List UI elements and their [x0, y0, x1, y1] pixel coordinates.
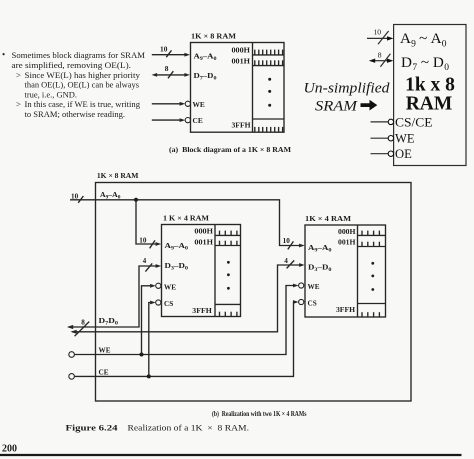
terminal CE (open circle): [69, 374, 75, 380]
svg-text:1 K × 4 RAM: 1 K × 4 RAM: [163, 213, 209, 222]
U3 cell ticks row 001H: [220, 241, 237, 246]
svg-text:>: >: [16, 70, 21, 80]
enclosure box 1K x 8 RAM realization: [96, 183, 412, 402]
svg-text:001H: 001H: [338, 238, 356, 246]
node junction CE rail: [147, 374, 151, 378]
svg-text:WE: WE: [193, 100, 205, 109]
wire data bus bidirectional with slash 8: [369, 51, 394, 67]
svg-text:true, i.e., GND.: true, i.e., GND.: [25, 89, 78, 99]
svg-text:WE: WE: [308, 283, 320, 291]
RAM block U2 un-simplified 1k x 8 overlay: [394, 25, 466, 166]
node junction on address bus: [134, 198, 138, 202]
svg-text:4: 4: [143, 257, 147, 265]
svg-text:10: 10: [71, 192, 79, 200]
svg-text:CE: CE: [99, 368, 109, 376]
svg-text:Un-simplified: Un-simplified: [304, 80, 390, 97]
svg-text:WE: WE: [164, 283, 176, 291]
svg-text:Figure 6.24: Figure 6.24: [66, 424, 118, 433]
svg-text:8: 8: [378, 51, 382, 60]
RAM block U3 (left 1K x 4): [162, 225, 241, 317]
svg-text:10: 10: [283, 237, 291, 245]
wire WE with bubble: [371, 136, 394, 141]
wire CE branch to U3: [149, 301, 156, 377]
wire data bus lower branch to U4: [71, 263, 305, 334]
bubble CE (active low): [185, 118, 190, 123]
svg-text:WE: WE: [99, 346, 111, 354]
wire CE rail: [74, 300, 298, 376]
svg-text:than OE(L), OE(L) can be alway: than OE(L), OE(L) can be always: [25, 80, 140, 90]
annotation bold arrow: [361, 100, 378, 111]
memory cell ticks row 001H: [255, 60, 283, 65]
bubble WE (active low): [185, 101, 190, 106]
bus slash: [168, 71, 173, 78]
wire address input with slash 10: [367, 28, 393, 45]
bus slash: [166, 50, 171, 57]
U4 bubble WE: [299, 283, 304, 288]
svg-text:001H: 001H: [194, 238, 213, 246]
svg-text:3FFH: 3FFH: [192, 307, 212, 315]
svg-text:(a) Block diagram of a 1K × 8: (a) Block diagram of a 1K × 8 RAM: [169, 145, 291, 154]
wire data bus upper branch to U3: [67, 264, 161, 329]
svg-text:001H: 001H: [232, 57, 251, 66]
U4 ellipsis dots: [371, 262, 374, 291]
wire WE input: [152, 102, 185, 106]
svg-text:000H: 000H: [338, 228, 356, 236]
U3 bubble WE: [156, 283, 161, 288]
svg-text:1k x 8: 1k x 8: [405, 75, 455, 96]
svg-text:In this case, if WE is true, w: In this case, if WE is true, writing: [25, 99, 141, 109]
terminal WE (open circle): [69, 352, 75, 358]
svg-text:CS: CS: [308, 300, 317, 308]
U3 ellipsis dots: [227, 261, 230, 290]
svg-text:3FFH: 3FFH: [232, 121, 251, 130]
wire CS/CE with bubble: [371, 119, 394, 124]
node junction WE rail: [140, 353, 144, 357]
svg-text:CE: CE: [193, 116, 203, 125]
wire CE input: [152, 118, 185, 122]
memory cell ticks row 3FFH: [255, 127, 283, 132]
wire WE rail: [74, 284, 298, 355]
U3 bubble CS: [156, 300, 161, 305]
svg-text:RAM: RAM: [406, 94, 453, 115]
svg-text:8: 8: [165, 64, 169, 73]
note bullet list about simplified SRAM diagrams: [2, 50, 145, 120]
bus slash (right 4): [287, 260, 295, 268]
svg-text:000H: 000H: [194, 228, 213, 236]
bus slash (8): [75, 322, 90, 337]
svg-text:D7 ~ D0: D7 ~ D0: [401, 54, 449, 73]
RAM block U4 (right 1K x 4): [305, 225, 386, 317]
svg-text:Sometimes block diagrams for S: Sometimes block diagrams for SRAM: [12, 50, 146, 60]
wire address branch to left RAM: [136, 200, 161, 246]
svg-text:are simplified, removing OE(L): are simplified, removing OE(L).: [12, 60, 132, 70]
bus slash (left branch): [150, 240, 155, 248]
svg-text:CS/CE: CS/CE: [395, 115, 433, 129]
bus slash (left 4): [145, 263, 152, 271]
bus slash (right branch): [288, 241, 294, 249]
bus slash: [78, 196, 83, 203]
svg-text:1K × 8 RAM: 1K × 8 RAM: [191, 31, 237, 40]
svg-text:4: 4: [284, 257, 288, 265]
svg-text:1K × 8 RAM: 1K × 8 RAM: [97, 171, 138, 180]
U4 bubble CS: [299, 299, 304, 304]
svg-text:to SRAM; otherwise reading.: to SRAM; otherwise reading.: [25, 109, 126, 119]
svg-text:>: >: [16, 99, 21, 109]
U3 cell ticks row 000H: [220, 231, 237, 236]
wire main address bus A9-A0: [70, 200, 305, 248]
memory cell ticks row 000H: [255, 50, 283, 55]
ellipsis dots: [268, 78, 271, 107]
svg-text:200: 200: [2, 444, 17, 455]
svg-text:A9 ~ A0: A9 ~ A0: [400, 30, 447, 49]
U3 cell ticks row 3FFH: [220, 312, 237, 317]
svg-text:Since WE(L) has higher priorit: Since WE(L) has higher priority: [25, 70, 141, 80]
wire data bus bidirectional: [152, 73, 191, 77]
RAM block U1 (1K x 8): [191, 43, 285, 133]
svg-text:10: 10: [160, 45, 168, 54]
svg-text:1K × 4 RAM: 1K × 4 RAM: [305, 214, 351, 223]
svg-text:000H: 000H: [232, 45, 251, 54]
svg-text:OE: OE: [395, 147, 412, 161]
page footer rule: [0, 454, 462, 456]
wire address bus into U1: [152, 53, 190, 57]
svg-text:CS: CS: [164, 300, 173, 308]
svg-text:10: 10: [374, 28, 382, 37]
U4 cell ticks row 000H: [362, 231, 379, 236]
svg-text:3FFH: 3FFH: [336, 306, 356, 314]
svg-text:WE: WE: [395, 131, 415, 145]
wire OE with bubble: [371, 151, 394, 156]
U4 cell ticks row 3FFH: [362, 312, 379, 317]
svg-text:(b) Realization with two 1K ×: (b) Realization with two 1K × 4 RAMs: [212, 410, 307, 418]
U4 cell ticks row 001H: [362, 242, 379, 247]
svg-text:•: •: [2, 50, 5, 60]
svg-text:Realization of a 1K × 8 RAM.: Realization of a 1K × 8 RAM.: [128, 424, 250, 433]
svg-text:10: 10: [139, 237, 147, 245]
wire WE branch to U3: [142, 284, 156, 355]
svg-text:SRAM: SRAM: [315, 98, 358, 115]
